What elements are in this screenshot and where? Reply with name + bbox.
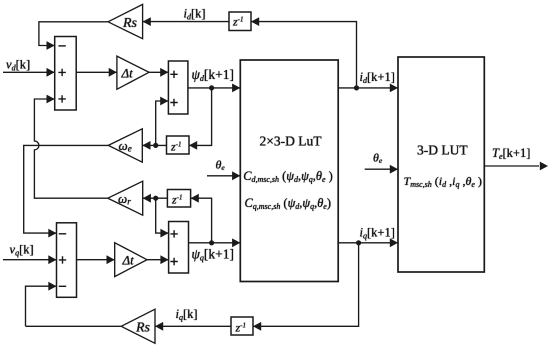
block U2 3-D LUT [398,57,484,272]
svg-text:z-1: z-1 [235,321,247,335]
delay z-1 D2 (top, i-d feedback) [229,12,251,31]
wire bottom feedback to Rs2 [26,325,122,327]
svg-text:ωe: ωe [119,138,132,154]
wire theta-e input to U2 [365,168,398,170]
arrow into W1 [142,141,150,150]
sign labels S2 [170,71,177,107]
wire Rs1 output down to S1 minus input [39,22,108,46]
arrow into D4 [253,322,261,331]
wire S1 output to G1 [76,71,117,73]
wire W1 output down to S3 minus input [24,145,109,233]
svg-text:3-D LUT: 3-D LUT [417,143,468,158]
block U1 2x3-D LuT [240,60,338,282]
wire D1 branch up to S2 plus input [156,101,169,145]
wire S3 output to G2 [77,259,115,261]
wire G1 output to S2 [149,71,168,73]
svg-text:Δt: Δt [122,253,135,268]
svg-text:θe: θe [373,151,383,166]
wire D3 output to W2 [143,197,168,199]
wire psi-q branch up to D3 [191,198,212,243]
wire theta-e input to U1 [207,175,240,177]
arrow into G1 [109,68,117,77]
svg-text:ψd[k+1]: ψd[k+1] [192,67,235,83]
gain G1 delta-t (d-axis) [117,56,149,89]
wire D2 output to Rs1 [143,21,229,23]
wire psi-q output to U1 [189,242,241,244]
delay z-1 D4 (bottom, i-q feedback) [231,317,253,335]
arrow into S2 plus top [160,68,168,77]
arrow into G2 [107,255,115,264]
svg-text:Te[k+1]: Te[k+1] [492,146,530,161]
arrow into S3 minus top [48,229,56,238]
svg-text:z-1: z-1 [232,15,244,29]
delay z-1 D1 (psi-d feedback) [167,136,190,154]
arrow into Rs1 [143,17,151,26]
node D3 output junction [153,196,158,201]
arrow into S1 plus vd [47,68,55,77]
svg-text:Cq,msc,sh (ψd,ψq,θe): Cq,msc,sh (ψd,ψq,θe) [245,196,331,211]
wire i-q output U1 to U2 [338,242,398,244]
svg-text:vq[k]: vq[k] [10,243,34,258]
arrow Te output [540,162,548,171]
gain G2 delta-t (q-axis) [115,243,147,277]
node psi-q junction [209,240,214,245]
gain Rs2 (bottom) [121,309,155,343]
wire Rs2 output up to S3 minus input [26,286,57,326]
arrow i-q into U2 [390,238,398,247]
gain W2 omega-r [108,181,143,215]
arrow into D1 [189,141,197,150]
wire D1 output to W1 [142,144,166,146]
wire i-d feedback up to top [251,22,357,88]
svg-text:θe: θe [216,158,226,173]
wire Te output [484,165,539,167]
svg-text:id[k+1]: id[k+1] [360,70,395,85]
sign labels S4 [170,230,177,265]
svg-text:2×3-D LuT: 2×3-D LuT [260,134,323,149]
gain W1 omega-e [108,129,142,162]
arrow into S1 minus [47,41,55,50]
node psi-d junction [209,85,214,90]
arrow into W2 [143,194,151,203]
svg-text:Δt: Δt [121,66,134,81]
arrow psi-d into U1 [232,84,240,93]
svg-text:Rs: Rs [135,321,151,336]
arrow psi-q into U1 [232,238,240,247]
arrow into Rs2 [155,322,163,331]
svg-text:ωr: ωr [118,191,131,207]
wire psi-d output to U1 [188,87,240,89]
svg-text:Cd,msc,sh (ψd,ψq,θe ): Cd,msc,sh (ψd,ψq,θe ) [243,169,333,184]
svg-text:vd[k]: vd[k] [6,58,30,73]
delay z-1 D3 (psi-q feedback) [167,190,190,208]
wire psi-d branch down to D1 [189,88,212,145]
arrow into D3 [191,194,199,203]
wire D3 branch down to S4 plus input [156,198,169,233]
summing block S4 (psi-q accumulator) [169,222,189,274]
arrow into S1 plus lower [47,95,55,104]
arrow into S4 plus top [160,229,168,238]
wire G2 output to S4 [147,259,169,261]
arrow into S4 plus bottom [160,255,168,264]
svg-text:z-1: z-1 [170,140,182,154]
arrow into S2 plus bottom [160,97,168,106]
svg-text:id[k]: id[k] [184,7,206,22]
svg-text:z-1: z-1 [171,193,183,207]
svg-text:iq[k]: iq[k] [176,307,198,322]
arrow theta-e into U1 [232,171,240,180]
wire i-q feedback down to D4 [253,243,359,326]
arrow into S3 plus vq [48,255,56,264]
node i-d junction [354,85,359,90]
svg-text:Tmsc,sh (id ,iq ,θe ): Tmsc,sh (id ,iq ,θe ) [404,174,482,189]
arrow i-d into U2 [390,84,398,93]
sign labels S3 [59,234,66,286]
wire vd input [3,71,55,73]
summing block S1 (d-axis voltage sum) [55,37,76,111]
svg-text:Rs: Rs [122,16,138,31]
wire vq input [3,259,57,261]
svg-text:ψq[k+1]: ψq[k+1] [192,247,235,263]
gain Rs1 (top) [108,4,143,38]
wire i-d output U1 to U2 [338,87,398,89]
node D1 output junction [153,143,158,148]
arrow into D2 [251,17,259,26]
summing block S2 (psi-d accumulator) [168,61,188,114]
summing block S3 (q-axis voltage sum) [57,223,77,297]
wire W2 output up to S1 plus input (with hop) [34,99,107,198]
arrow into S3 minus bottom [48,282,56,291]
wire D4 output to Rs2 [155,325,231,327]
node i-q junction [356,240,361,245]
sign labels S1 [58,46,65,103]
arrow theta-e into U2 [390,165,398,174]
svg-text:iq[k+1]: iq[k+1] [360,226,395,241]
